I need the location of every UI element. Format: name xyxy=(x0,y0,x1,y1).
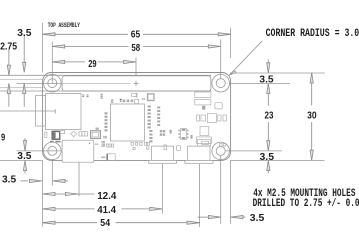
dimension 3.5 right arrows and 23 top arrow xyxy=(267,60,269,67)
sd card socket xyxy=(45,94,81,130)
component square crystal xyxy=(148,94,154,101)
gpio header band top line xyxy=(0,74,211,76)
mounting hole TR xyxy=(212,74,230,92)
corner radius leader arrowhead xyxy=(229,71,236,75)
dimension 3.5 left-mid arrows xyxy=(24,138,26,141)
three squares row xyxy=(79,132,82,136)
board center cross xyxy=(134,81,139,86)
tiny pads far left xyxy=(95,144,96,145)
svg-text:3.5: 3.5 xyxy=(17,28,32,39)
dimension 58 line xyxy=(52,45,128,47)
diamond marker xyxy=(71,131,77,137)
svg-text:30: 30 xyxy=(307,110,317,121)
usb power centerline extension below xyxy=(199,164,201,227)
board centerline extension above xyxy=(135,58,137,76)
sd centerline end tick xyxy=(54,109,56,113)
sd centerline extension left xyxy=(0,110,55,112)
dimension 3.5 bottom-right arrows xyxy=(198,216,209,218)
pads pair right xyxy=(111,99,113,101)
horizontal rect above usb2 xyxy=(197,140,210,146)
row of three boxes xyxy=(107,144,109,147)
left cluster below sd: tiny rect xyxy=(45,132,47,137)
dimension 3.5 bottom-left line xyxy=(21,180,29,182)
ic pins right xyxy=(187,130,189,132)
dimension 12.4 line xyxy=(43,193,95,195)
dimension 54 line xyxy=(43,222,97,224)
dimension 65 line xyxy=(7,33,313,225)
sd card protrusion xyxy=(36,96,46,127)
dimension 30 top arrow xyxy=(310,73,313,83)
pads cluster right xyxy=(160,130,162,132)
dark bars xyxy=(120,99,122,100)
small ic body xyxy=(180,129,186,140)
hole center extension right top xyxy=(230,83,290,85)
hole center extension below right xyxy=(220,156,222,224)
vertical rect above usb1 xyxy=(164,145,166,150)
pad pairs below band left xyxy=(82,94,84,95)
left edge extension above xyxy=(42,23,44,73)
mounting hole BL xyxy=(44,142,62,160)
gray mark xyxy=(96,128,99,130)
svg-text:12.4: 12.4 xyxy=(97,191,116,202)
right edge extension above xyxy=(230,28,232,58)
corner radius leader line xyxy=(229,41,262,75)
hole center extension right bottom xyxy=(225,150,282,152)
svg-text:TOP ASSEMBLY: TOP ASSEMBLY xyxy=(48,22,81,30)
board outline xyxy=(43,73,231,161)
right tiny marks xyxy=(219,143,222,146)
ic pins left xyxy=(179,130,181,132)
component box left of hdmi xyxy=(91,131,101,139)
svg-text:9: 9 xyxy=(1,132,5,143)
usb data centerline extension below xyxy=(161,164,163,214)
dimension 23 lower segment and arrow xyxy=(267,122,269,144)
right side rounded square xyxy=(215,103,222,109)
usb power connector flange xyxy=(185,160,213,163)
hole center extension above left xyxy=(51,42,53,84)
pad column B right of chip xyxy=(157,107,160,109)
tiny silkscreen text marks xyxy=(50,141,54,143)
soc chip xyxy=(111,104,145,141)
dimension 29 line xyxy=(52,61,85,63)
gpio header centerline xyxy=(63,83,131,85)
svg-text:DRILLED TO 2.75 +/- 0.05: DRILLED TO 2.75 +/- 0.05 xyxy=(253,198,359,210)
dimension 30 bottom segment and arrow xyxy=(311,122,313,154)
pmic square xyxy=(52,131,60,139)
svg-text:41.4: 41.4 xyxy=(97,205,116,216)
small rects mid-bottom xyxy=(104,136,105,138)
dimension 3.5 top-left arrows xyxy=(23,36,25,63)
svg-text:29: 29 xyxy=(88,59,97,70)
dimension 41.4 line xyxy=(43,208,95,210)
right lower wide rect xyxy=(197,137,212,144)
svg-text:3.5: 3.5 xyxy=(2,175,16,186)
svg-text:3.5: 3.5 xyxy=(250,213,265,224)
gpio header connector outline xyxy=(62,76,211,91)
tiny text marks bottom xyxy=(101,157,105,159)
svg-text:58: 58 xyxy=(131,43,140,54)
svg-text:2.75: 2.75 xyxy=(0,42,17,53)
svg-text:23: 23 xyxy=(265,110,274,121)
left edge extension below xyxy=(42,160,44,226)
small box right xyxy=(135,99,139,103)
component pads pair xyxy=(142,98,144,100)
right side rect 1 xyxy=(195,92,211,98)
right edge extension below xyxy=(230,160,232,224)
svg-text:3.5: 3.5 xyxy=(260,152,275,163)
component pads column xyxy=(136,93,138,95)
dimension 3.5 right-mid up arrow xyxy=(267,160,270,170)
hole center extension left top xyxy=(17,82,61,84)
svg-text:54: 54 xyxy=(100,218,110,229)
gray rect left xyxy=(170,130,172,134)
pad pairs row xyxy=(123,100,124,103)
right lower square xyxy=(200,127,209,136)
hole center extension left bottom xyxy=(17,150,61,152)
svg-text:3.5: 3.5 xyxy=(17,151,31,162)
usb power connector body xyxy=(188,146,210,160)
usb data connector flange xyxy=(149,160,177,163)
gpio pin row lower centerline xyxy=(0,86,44,88)
right side rect 2 xyxy=(195,99,211,105)
mounting hole BR xyxy=(212,142,230,160)
hole center extension below left xyxy=(51,160,53,186)
gray mark right of ic xyxy=(191,135,193,139)
right side small dark square xyxy=(202,106,205,110)
component rect top middle xyxy=(132,93,137,96)
usb data connector body xyxy=(152,146,174,160)
mounting hole TL xyxy=(44,74,62,92)
rect at bottom edge left of usb xyxy=(107,154,115,161)
pads below chip xyxy=(131,142,133,145)
small rect above usb2 left xyxy=(177,146,181,151)
mini hdmi connector xyxy=(62,140,94,162)
hole center extension above right xyxy=(220,40,222,80)
board bottom edge extension left xyxy=(0,159,43,161)
svg-text:3.5: 3.5 xyxy=(259,75,273,86)
dimension 2.75 arrows xyxy=(8,50,10,66)
svg-text:65: 65 xyxy=(131,30,141,41)
gpio header band bottom line xyxy=(0,90,211,92)
board bottom edge extension right xyxy=(231,159,325,161)
board top edge extension right xyxy=(230,72,325,74)
pad column A right of chip xyxy=(148,106,151,108)
small rect right of pmic xyxy=(60,130,64,133)
right cluster squares xyxy=(197,115,200,121)
gpio pin row upper centerline xyxy=(0,79,44,81)
gray dash above pmic xyxy=(55,131,57,132)
pad column left of chip xyxy=(105,112,108,114)
hdmi centerline extension below xyxy=(78,159,80,197)
svg-text:CORNER RADIUS = 3.0mm: CORNER RADIUS = 3.0mm xyxy=(266,28,359,40)
